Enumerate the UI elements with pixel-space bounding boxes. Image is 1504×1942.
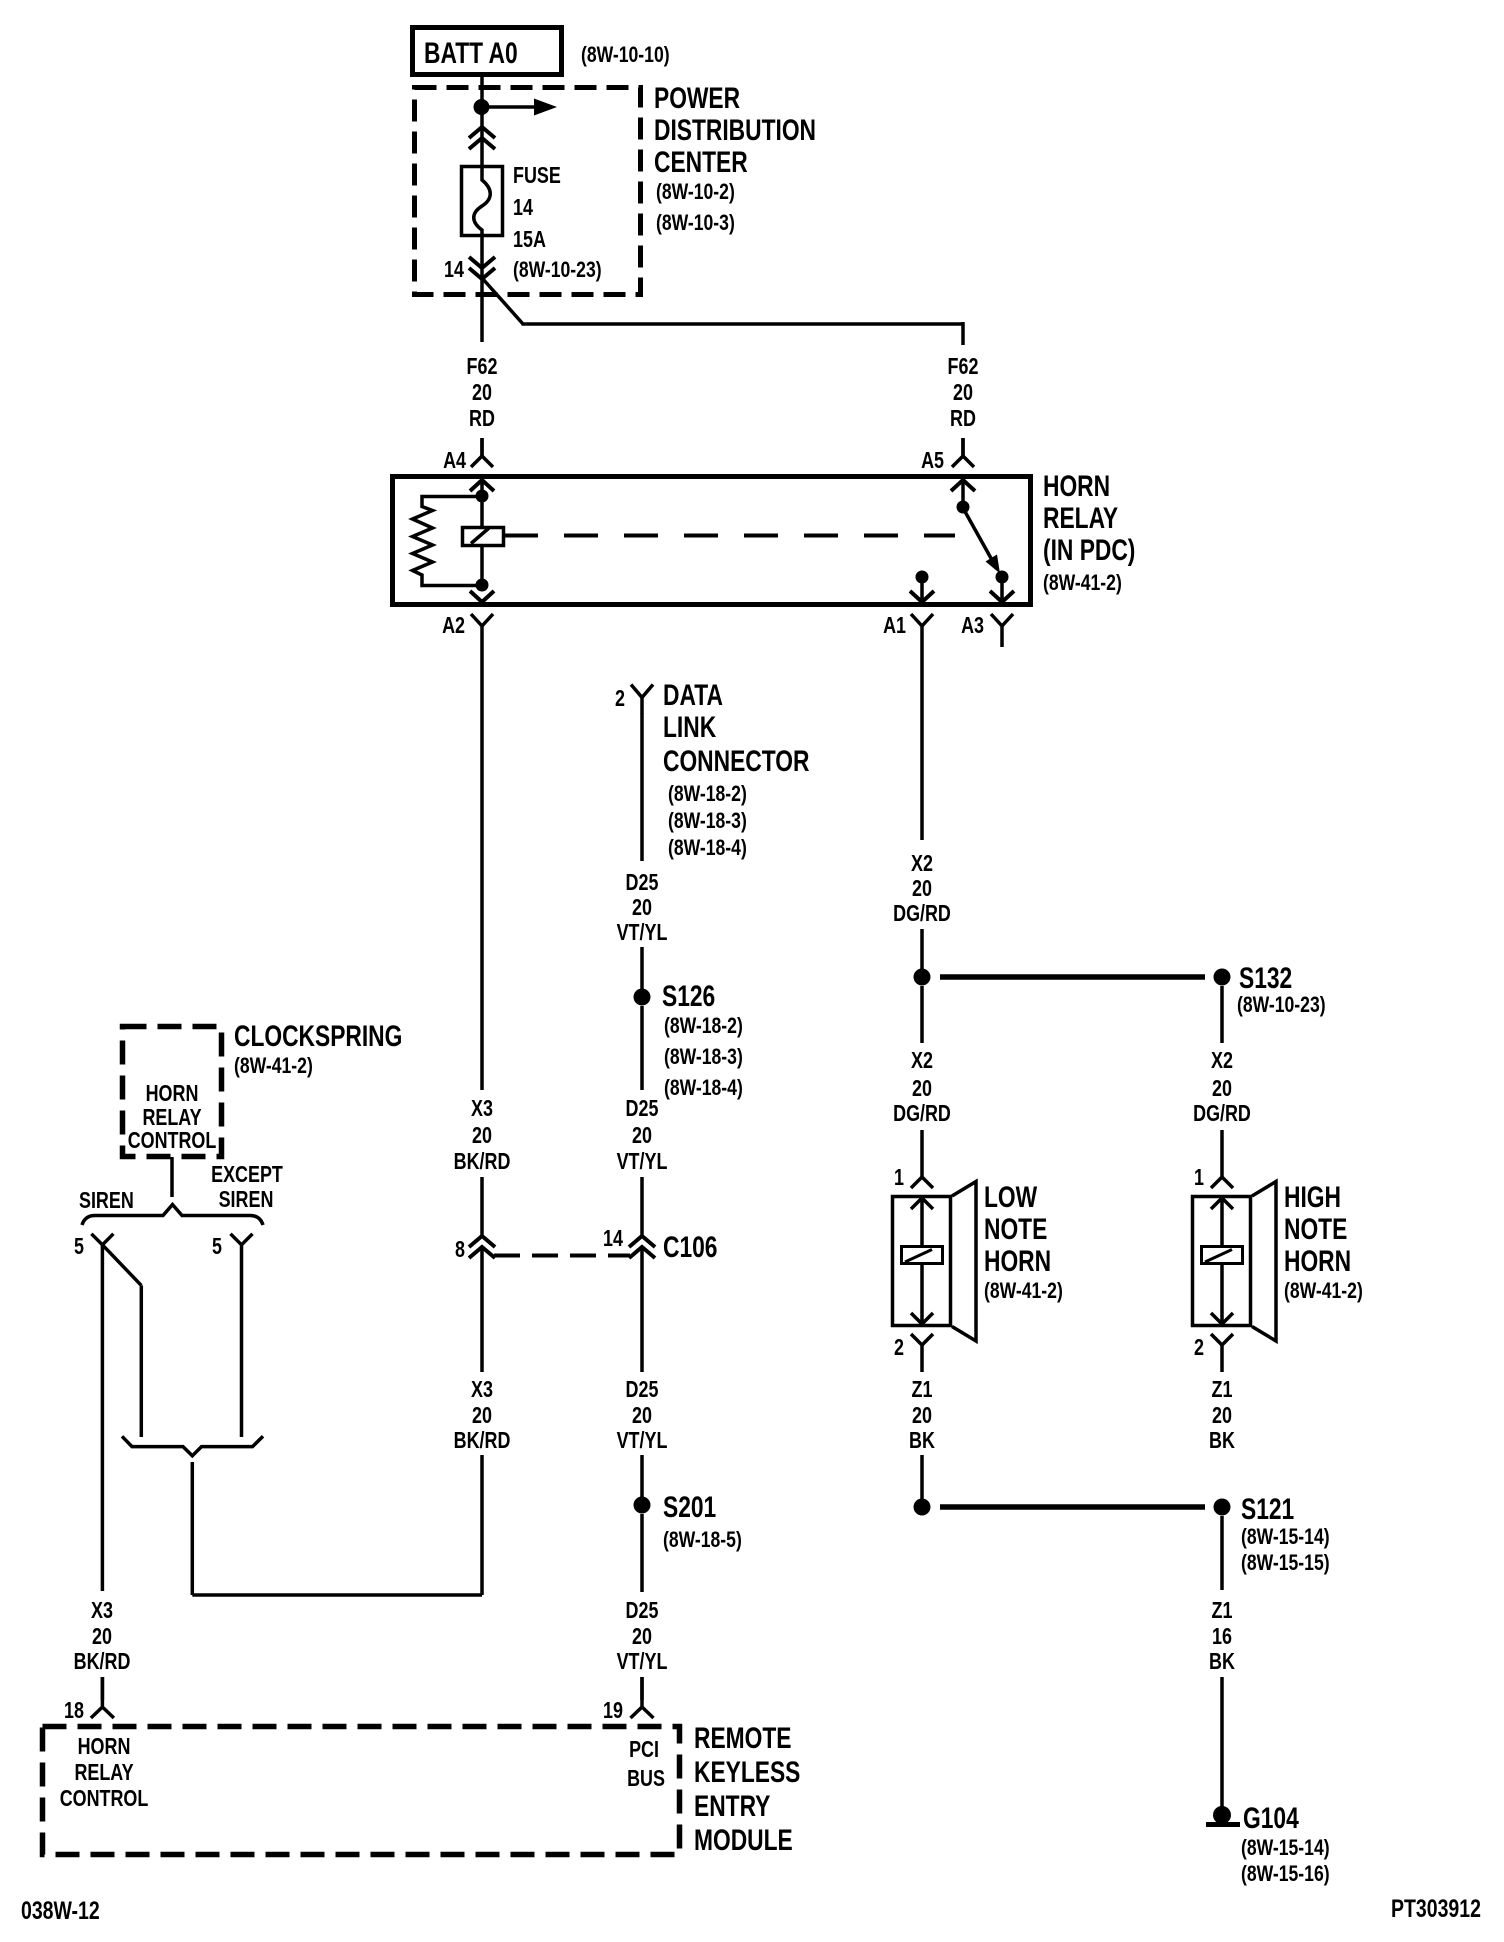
svg-text:DATA: DATA <box>663 678 723 712</box>
low horn coil symbol <box>902 1247 943 1264</box>
svg-text:(8W-18-4): (8W-18-4) <box>664 1076 743 1100</box>
svg-text:NOTE: NOTE <box>984 1212 1047 1246</box>
svg-text:PT303912: PT303912 <box>1391 1895 1481 1923</box>
svg-text:(8W-18-3): (8W-18-3) <box>664 1045 743 1069</box>
svg-text:CLOCKSPRING: CLOCKSPRING <box>234 1019 402 1053</box>
svg-text:MODULE: MODULE <box>694 1823 793 1857</box>
relay switch pivot node <box>957 501 970 514</box>
low horn cone <box>952 1182 976 1342</box>
svg-text:X3: X3 <box>471 1096 493 1122</box>
low horn top chevron <box>911 1198 933 1209</box>
svg-text:5: 5 <box>212 1234 222 1260</box>
svg-text:SIREN: SIREN <box>219 1187 274 1213</box>
wire low horn pin 2 down <box>920 1362 924 1372</box>
data link connector pin 2 <box>631 685 653 714</box>
wire to splice S126 <box>640 947 644 989</box>
wire S126 down <box>640 1006 644 1090</box>
svg-text:BUS: BUS <box>627 1766 665 1792</box>
svg-text:VT/YL: VT/YL <box>617 920 668 946</box>
svg-text:S201: S201 <box>663 1490 716 1524</box>
svg-text:FUSE: FUSE <box>513 163 561 189</box>
svg-text:2: 2 <box>615 686 625 712</box>
svg-text:CONTROL: CONTROL <box>60 1786 149 1812</box>
high horn pin 1 connector <box>1211 1166 1233 1188</box>
svg-text:14: 14 <box>444 257 464 283</box>
svg-text:VT/YL: VT/YL <box>617 1649 668 1675</box>
svg-text:C106: C106 <box>663 1230 717 1264</box>
svg-text:14: 14 <box>513 195 533 221</box>
svg-text:20: 20 <box>632 895 652 921</box>
high horn cone <box>1252 1182 1276 1342</box>
high horn pin 2 connector <box>1211 1334 1233 1362</box>
svg-text:HORN: HORN <box>984 1244 1051 1278</box>
svg-text:RELAY: RELAY <box>142 1105 201 1131</box>
wire D25 to splice S201 <box>640 1455 644 1497</box>
svg-text:20: 20 <box>912 1403 932 1429</box>
variant split brace <box>82 1205 263 1226</box>
svg-text:(8W-18-4): (8W-18-4) <box>668 836 747 860</box>
node junction in PDC <box>474 99 490 115</box>
svg-text:BK: BK <box>909 1428 935 1454</box>
svg-text:D25: D25 <box>626 1598 659 1624</box>
svg-text:S126: S126 <box>662 979 715 1013</box>
relay pin A5 chevron <box>951 480 975 491</box>
svg-text:20: 20 <box>632 1403 652 1429</box>
svg-text:(8W-41-2): (8W-41-2) <box>1043 571 1122 595</box>
relay switch arm <box>963 508 992 560</box>
svg-text:X2: X2 <box>911 851 933 877</box>
svg-text:BATT A0: BATT A0 <box>424 36 518 70</box>
wire Z1 16 to G104 <box>1220 1677 1224 1808</box>
splice S132 <box>1214 969 1231 986</box>
svg-text:(8W-41-2): (8W-41-2) <box>984 1279 1063 1303</box>
svg-text:(8W-10-23): (8W-10-23) <box>513 258 602 282</box>
svg-text:BK/RD: BK/RD <box>454 1428 511 1454</box>
svg-text:(8W-10-3): (8W-10-3) <box>656 211 735 235</box>
splice S201 <box>634 1497 651 1514</box>
svg-text:A1: A1 <box>883 613 906 639</box>
relay coil symbol <box>463 528 504 546</box>
clockspring dashed box <box>123 1027 222 1157</box>
svg-text:EXCEPT: EXCEPT <box>211 1162 283 1188</box>
svg-text:LOW: LOW <box>984 1180 1038 1214</box>
svg-text:DG/RD: DG/RD <box>893 901 951 927</box>
wire DLC pin 2 down <box>640 713 644 861</box>
svg-text:A4: A4 <box>443 448 466 474</box>
svg-text:20: 20 <box>912 876 932 902</box>
svg-text:VT/YL: VT/YL <box>617 1428 668 1454</box>
svg-text:(8W-10-10): (8W-10-10) <box>581 43 670 67</box>
wire BATT A0 to fuse <box>480 75 484 180</box>
relay pin A3 chevron <box>990 591 1014 602</box>
relay coil wire <box>480 480 484 585</box>
wire merged branch down <box>191 1462 195 1595</box>
svg-text:KEYLESS: KEYLESS <box>694 1755 800 1789</box>
connector double chevron pin 14 (PDC bottom) <box>469 257 495 268</box>
low horn bottom chevron <box>911 1313 933 1324</box>
svg-text:20: 20 <box>953 380 973 406</box>
svg-text:18: 18 <box>64 1698 84 1724</box>
wire D25 below C106 <box>640 1247 644 1372</box>
wire to low horn pin 1 <box>920 1130 924 1166</box>
relay pin A4 chevron <box>470 480 494 491</box>
relay contact A1 node <box>916 571 929 584</box>
svg-text:LINK: LINK <box>663 710 716 744</box>
horn relay box <box>393 477 1031 605</box>
splice S121 <box>1214 1499 1231 1516</box>
svg-text:(8W-15-16): (8W-15-16) <box>1241 1862 1330 1886</box>
svg-text:Z1: Z1 <box>912 1377 933 1403</box>
wire X3 to C106 <box>480 1177 484 1236</box>
svg-text:(8W-18-5): (8W-18-5) <box>663 1528 742 1552</box>
svg-text:(8W-41-2): (8W-41-2) <box>1284 1279 1363 1303</box>
splice tie line S121 <box>940 1504 1205 1510</box>
svg-text:G104: G104 <box>1243 1801 1299 1835</box>
splice tie line S132 <box>940 974 1205 980</box>
wire X3 below C106 <box>480 1247 484 1372</box>
relay A3 wire <box>1000 577 1004 602</box>
low horn pin 2 connector <box>911 1334 933 1362</box>
wire branch diagonal to horn relay A5 <box>482 278 523 324</box>
wire siren branch to pin 18 <box>101 1245 105 1591</box>
relay contact A3 node <box>996 571 1009 584</box>
svg-text:HORN: HORN <box>146 1081 199 1107</box>
svg-text:5: 5 <box>74 1234 84 1260</box>
svg-text:DG/RD: DG/RD <box>893 1101 951 1127</box>
svg-text:X2: X2 <box>1211 1048 1233 1074</box>
wire except-siren branch <box>240 1245 244 1437</box>
relay coil bottom node <box>476 579 489 592</box>
svg-text:X2: X2 <box>911 1048 933 1074</box>
svg-text:(8W-41-2): (8W-41-2) <box>234 1054 313 1078</box>
svg-text:(8W-10-2): (8W-10-2) <box>656 180 735 204</box>
svg-text:CONNECTOR: CONNECTOR <box>663 744 809 778</box>
svg-text:(8W-18-2): (8W-18-2) <box>668 782 747 806</box>
svg-text:16: 16 <box>1212 1624 1232 1650</box>
high horn bottom chevron <box>1211 1313 1233 1324</box>
svg-text:2: 2 <box>894 1335 904 1361</box>
wire to splice node <box>920 929 924 969</box>
svg-text:F62: F62 <box>467 354 498 380</box>
svg-text:CONTROL: CONTROL <box>128 1128 217 1154</box>
wire D25 to C106 <box>640 1177 644 1236</box>
relay resistor <box>413 497 483 586</box>
relay coil top node <box>476 490 489 503</box>
svg-text:D25: D25 <box>626 1096 659 1122</box>
svg-text:A5: A5 <box>921 448 944 474</box>
svg-text:CENTER: CENTER <box>654 145 748 179</box>
wire siren branch diagonal <box>102 1245 141 1286</box>
svg-text:Z1: Z1 <box>1212 1598 1233 1624</box>
relay switch common wire <box>961 480 965 507</box>
wire X3 to junction <box>480 1455 484 1595</box>
high note horn body <box>1193 1197 1251 1326</box>
wire to RKE pin 19 <box>640 1677 644 1700</box>
svg-text:REMOTE: REMOTE <box>694 1721 791 1755</box>
svg-text:BK/RD: BK/RD <box>74 1649 131 1675</box>
remote keyless entry module dashed box <box>43 1727 680 1855</box>
connector C106 dashed tie <box>494 1254 630 1258</box>
svg-text:D25: D25 <box>626 870 659 896</box>
svg-text:F62: F62 <box>948 354 979 380</box>
pin A3 connector <box>991 614 1013 647</box>
svg-text:VT/YL: VT/YL <box>617 1149 668 1175</box>
pin A2 connector <box>471 614 493 647</box>
pin 19 connector <box>631 1677 654 1718</box>
svg-text:1: 1 <box>1194 1165 1204 1191</box>
svg-text:(8W-15-14): (8W-15-14) <box>1241 1525 1330 1549</box>
high horn internal wire <box>1220 1198 1224 1324</box>
svg-text:20: 20 <box>92 1624 112 1650</box>
ground G104 symbol <box>1213 1806 1231 1824</box>
svg-text:20: 20 <box>472 1403 492 1429</box>
svg-text:2: 2 <box>1194 1335 1204 1361</box>
wire to RKE pin 18 <box>101 1677 105 1700</box>
svg-text:ENTRY: ENTRY <box>694 1789 771 1823</box>
svg-text:20: 20 <box>1212 1403 1232 1429</box>
splice S126 <box>634 989 651 1006</box>
svg-text:20: 20 <box>632 1123 652 1149</box>
svg-text:HORN: HORN <box>1284 1244 1351 1278</box>
low horn pin 1 connector <box>911 1166 933 1188</box>
svg-text:20: 20 <box>472 380 492 406</box>
wire relay A2 down <box>480 647 484 1090</box>
svg-text:A3: A3 <box>961 613 984 639</box>
battery feed box BATT A0 <box>413 28 562 75</box>
svg-text:BK: BK <box>1209 1649 1235 1675</box>
svg-text:19: 19 <box>603 1698 623 1724</box>
low note horn body <box>893 1197 951 1326</box>
svg-text:(8W-15-15): (8W-15-15) <box>1241 1551 1330 1575</box>
svg-text:BK/RD: BK/RD <box>454 1149 511 1175</box>
connector C106 pin 14 chevrons <box>629 1236 655 1247</box>
svg-text:DISTRIBUTION: DISTRIBUTION <box>654 113 816 147</box>
fuse element <box>474 168 491 236</box>
svg-text:RD: RD <box>469 406 495 432</box>
svg-text:1: 1 <box>894 1165 904 1191</box>
connector C106 pin 8 chevrons <box>469 1236 495 1247</box>
svg-text:RD: RD <box>950 406 976 432</box>
connector double chevron (PDC top) <box>469 127 495 138</box>
pin A5 connector <box>952 438 974 467</box>
svg-text:8: 8 <box>455 1237 465 1263</box>
wire fuse to pin 14 <box>480 236 484 342</box>
wire low horn feed <box>920 986 924 1043</box>
svg-text:S121: S121 <box>1241 1492 1294 1526</box>
svg-text:Z1: Z1 <box>1212 1377 1233 1403</box>
pin 18 connector <box>91 1677 114 1718</box>
pin 5 connector (except siren) <box>231 1234 253 1245</box>
svg-text:A2: A2 <box>442 613 465 639</box>
svg-text:20: 20 <box>632 1624 652 1650</box>
wire relay A1 down <box>920 647 924 840</box>
relay pin A1 chevron <box>910 591 934 602</box>
wire S201 down <box>640 1514 644 1592</box>
relay pin A2 chevron <box>470 591 494 602</box>
svg-text:14: 14 <box>603 1226 623 1252</box>
svg-text:(8W-18-2): (8W-18-2) <box>664 1014 743 1038</box>
pin A4 connector <box>471 438 493 467</box>
svg-text:(8W-18-3): (8W-18-3) <box>668 809 747 833</box>
svg-text:HORN: HORN <box>1043 469 1110 503</box>
splice node at S121 tie <box>914 1499 931 1516</box>
arrow feed to other circuits <box>482 105 535 109</box>
svg-text:X3: X3 <box>91 1598 113 1624</box>
svg-text:S132: S132 <box>1239 961 1292 995</box>
relay internal dashed link <box>504 534 955 538</box>
wire S121 to ground <box>1220 1516 1224 1590</box>
relay A1 wire <box>920 577 924 602</box>
svg-text:DG/RD: DG/RD <box>1193 1101 1251 1127</box>
svg-text:POWER: POWER <box>654 81 740 115</box>
wire to relay pin A4 <box>480 438 484 457</box>
wire high horn pin 2 down <box>1220 1362 1224 1372</box>
svg-text:D25: D25 <box>626 1377 659 1403</box>
svg-text:HIGH: HIGH <box>1284 1180 1341 1214</box>
high horn top chevron <box>1211 1198 1233 1209</box>
pin 5 connector (siren) <box>91 1234 113 1245</box>
svg-text:(IN PDC): (IN PDC) <box>1043 533 1135 567</box>
wire low horn ground <box>920 1455 924 1499</box>
svg-text:038W-12: 038W-12 <box>21 1897 100 1925</box>
low horn internal wire <box>920 1198 924 1324</box>
svg-text:(8W-15-14): (8W-15-14) <box>1241 1836 1330 1860</box>
svg-text:20: 20 <box>472 1123 492 1149</box>
wire to high horn pin 1 <box>1220 1130 1224 1166</box>
fuse F14 box <box>462 167 503 236</box>
high horn coil symbol <box>1202 1247 1243 1264</box>
wire to relay pin A5 <box>961 438 965 457</box>
power distribution center dashed box <box>415 88 641 295</box>
wire clockspring down <box>170 1157 174 1197</box>
svg-text:BK: BK <box>1209 1428 1235 1454</box>
svg-text:X3: X3 <box>471 1377 493 1403</box>
svg-text:HORN: HORN <box>78 1734 131 1760</box>
splice node at S132 tie <box>914 969 931 986</box>
wire junction horizontal <box>192 1593 482 1597</box>
svg-text:SIREN: SIREN <box>79 1188 134 1214</box>
pin A1 connector <box>911 614 933 647</box>
merge brace <box>122 1436 263 1456</box>
svg-text:RELAY: RELAY <box>1043 501 1118 535</box>
svg-text:20: 20 <box>912 1076 932 1102</box>
svg-text:15A: 15A <box>513 227 546 253</box>
svg-text:NOTE: NOTE <box>1284 1212 1347 1246</box>
svg-text:20: 20 <box>1212 1076 1232 1102</box>
svg-text:(8W-10-23): (8W-10-23) <box>1237 993 1326 1017</box>
wire high horn feed <box>1220 986 1224 1043</box>
svg-text:RELAY: RELAY <box>74 1760 133 1786</box>
svg-text:PCI: PCI <box>629 1737 659 1763</box>
